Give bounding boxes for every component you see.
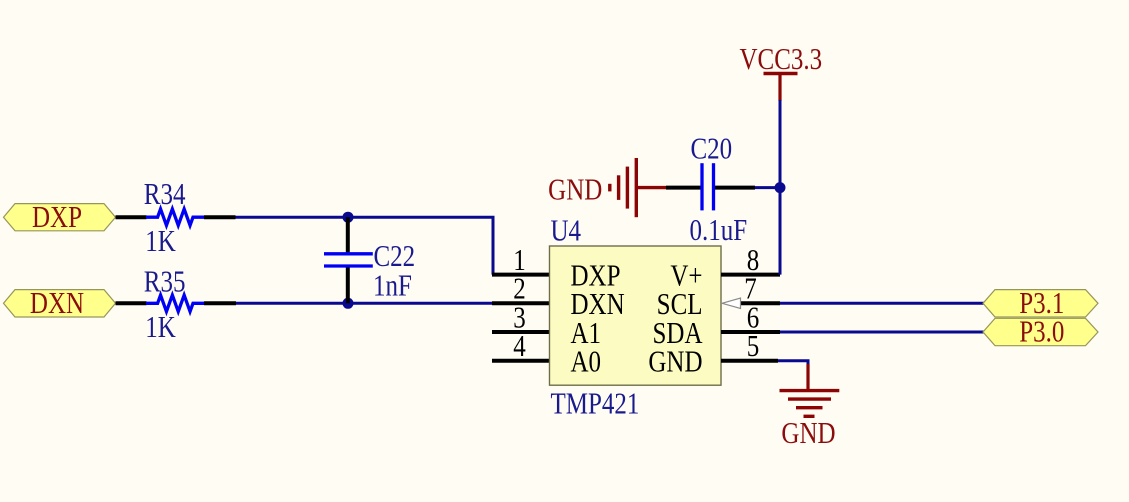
ground symbol GND left (635, 158, 638, 217)
port DXP (4, 204, 116, 231)
wire C22 top lead (346, 217, 350, 252)
capacitor C20 (700, 163, 703, 210)
junction node bottom (343, 298, 354, 309)
pin 4 (492, 359, 550, 363)
wire pin 5 to ground (778, 361, 808, 366)
pin 7 (741, 301, 781, 305)
svg-text:TMP421: TMP421 (551, 386, 640, 420)
svg-text:1nF: 1nF (373, 268, 412, 302)
svg-text:DXP: DXP (32, 200, 82, 234)
svg-text:0.1uF: 0.1uF (690, 213, 748, 247)
wire SDA net (780, 331, 986, 334)
wire C20 to VCC node (715, 186, 755, 190)
pin 6 (721, 330, 780, 334)
svg-text:GND: GND (648, 344, 702, 378)
pin 3 (492, 330, 550, 334)
port P3.1 (983, 290, 1098, 317)
pin 8 (721, 273, 780, 277)
svg-text:C20: C20 (691, 131, 733, 165)
resistor R35 (146, 295, 204, 311)
pin 5 (721, 359, 778, 363)
svg-text:VCC3.3: VCC3.3 (739, 42, 822, 76)
wire DXN net (bottom row) (236, 302, 494, 305)
port P3.0 (983, 318, 1098, 345)
svg-text:P3.0: P3.0 (1019, 314, 1064, 348)
wire DXN port to R35 (116, 301, 147, 305)
wire SCL net (780, 302, 986, 305)
junction node VCC (775, 182, 786, 193)
port DXN (4, 290, 116, 317)
svg-text:4: 4 (513, 329, 526, 363)
svg-text:GND: GND (548, 172, 602, 206)
pin 1 (492, 273, 550, 277)
svg-text:U4: U4 (551, 213, 582, 247)
svg-text:5: 5 (747, 329, 760, 363)
pin 2 (492, 301, 550, 305)
junction node top (343, 212, 354, 223)
power symbol VCC3.3 (764, 72, 798, 76)
svg-text:1K: 1K (145, 310, 176, 344)
wire DXP port to R34 (116, 215, 147, 219)
wire C22 bottom lead (346, 267, 350, 303)
wire R34 stub (204, 215, 236, 219)
capacitor C22 (324, 252, 373, 255)
resistor R34 (146, 209, 204, 225)
svg-text:DXN: DXN (30, 286, 84, 320)
wire VCC vertical (779, 100, 782, 275)
wire GND to C20 (636, 186, 666, 189)
wire R35 stub (204, 301, 236, 305)
ground symbol GND bottom (780, 389, 840, 392)
IC U4 body (550, 246, 722, 385)
svg-text:A0: A0 (571, 344, 602, 378)
wire DXP net (top row) (236, 217, 494, 274)
svg-text:GND: GND (781, 416, 835, 450)
svg-text:R35: R35 (144, 264, 186, 298)
svg-text:1K: 1K (145, 224, 176, 258)
svg-text:R34: R34 (144, 177, 186, 211)
